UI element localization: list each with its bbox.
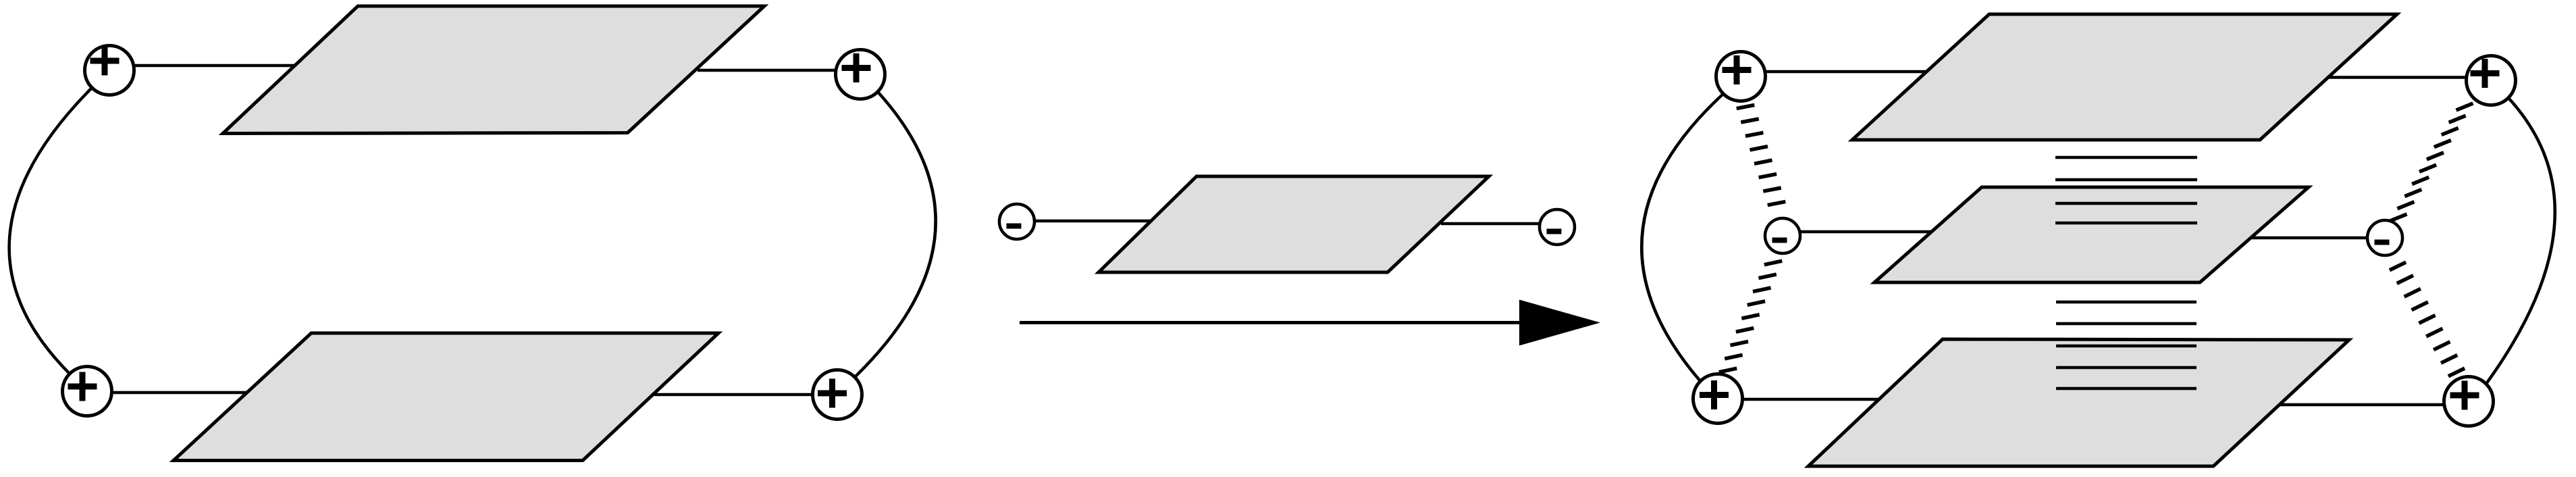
wire right-bottom-right (2280, 403, 2444, 407)
dashed bond upper-left (1737, 105, 1786, 205)
wire right-bottom-left (1742, 398, 1880, 401)
dashed bond lower-left (1719, 261, 1782, 372)
negative terminal middle-left (999, 204, 1034, 239)
left connecting arc (9, 88, 93, 374)
wire right-middle-left (1800, 230, 1932, 234)
positive terminal top-right (836, 50, 885, 99)
positive terminal right-top-left (1716, 52, 1766, 101)
wire middle-left (1034, 220, 1151, 223)
positive terminal right-top-right (2467, 56, 2516, 105)
dashed bond upper-right (2390, 103, 2473, 221)
positive terminal right-bottom-right (2444, 377, 2494, 426)
capacitor C1 bottom plate (174, 333, 718, 461)
negative terminal right-middle-left (1765, 218, 1800, 253)
dielectric plate (1099, 176, 1489, 272)
arrow (1020, 300, 1600, 346)
capacitor C2 top plate (1852, 14, 2397, 140)
negative terminal right-middle-right (2367, 220, 2402, 255)
positive terminal right-bottom-left (1693, 374, 1743, 424)
field lines top gap (2055, 157, 2197, 223)
field lines bottom gap (2056, 302, 2197, 388)
capacitor C2 middle plate (1874, 187, 2309, 282)
positive terminal bottom-right (813, 370, 862, 420)
wire right-middle-right (2252, 236, 2367, 240)
right connecting arc right group (2486, 98, 2555, 384)
wire right-top-left (1765, 70, 1927, 74)
positive terminal top-left (85, 46, 134, 95)
negative terminal middle-right (1540, 209, 1575, 245)
capacitor C1 top plate (223, 6, 764, 134)
dashed bond lower-right (2390, 262, 2465, 376)
wire bottom-right (652, 393, 813, 397)
right connecting arc (855, 92, 936, 377)
wire bottom-left (111, 391, 247, 395)
left connecting arc right group (1641, 94, 1723, 381)
capacitor C2 bottom plate (1808, 339, 2349, 466)
wire top-right (698, 69, 836, 72)
positive terminal bottom-left (63, 367, 112, 416)
wire middle-right (1441, 222, 1540, 226)
wire top-left (134, 64, 295, 68)
wire right-top-right (2328, 76, 2467, 79)
